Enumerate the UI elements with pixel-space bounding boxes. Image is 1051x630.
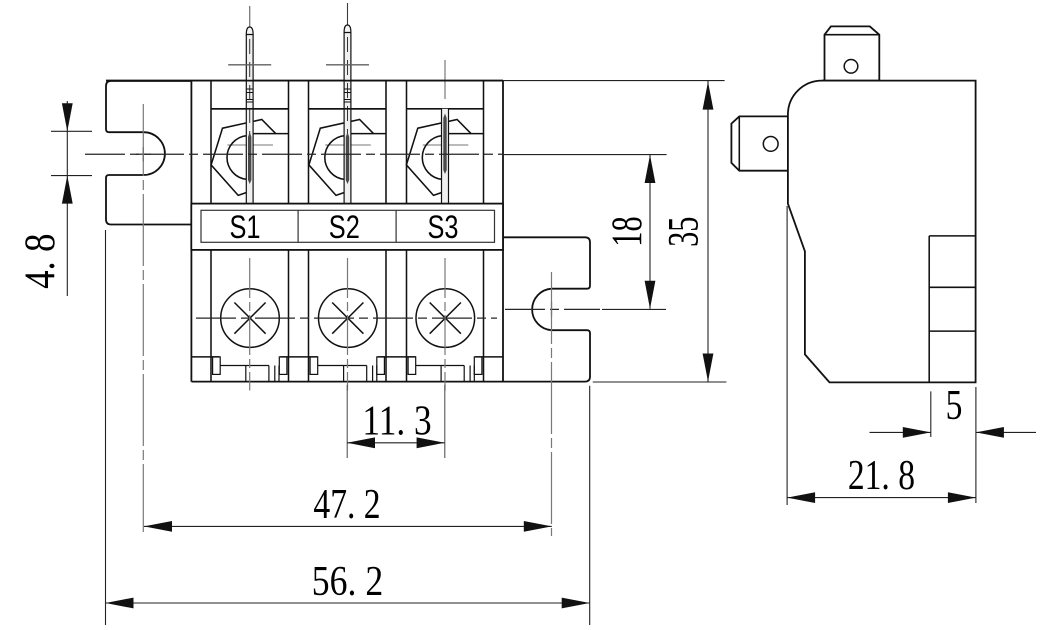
- terminal 3 screw hole arc: [422, 136, 442, 180]
- left tab hole: [763, 137, 778, 152]
- svg-text:56. 2: 56. 2: [312, 558, 383, 604]
- dimension 35 dim line and arrows: [707, 81, 709, 382]
- left view: body left edge: [190, 81, 192, 382]
- dimension 18 dim line and arrows: [649, 155, 651, 309]
- right mounting tab with slot: [503, 237, 590, 381]
- top tab hole: [844, 60, 858, 74]
- terminal 3 clamp nut polygon: [406, 120, 471, 196]
- terminal 1 screw hole arc: [227, 136, 247, 180]
- terminal 3 chamber top line: [407, 108, 484, 110]
- pin 2 cross tick: [326, 64, 369, 66]
- terminal 2 clamp nut polygon: [309, 120, 374, 196]
- screw head cross 3: [430, 303, 461, 334]
- pin 1 centerline above: [249, 6, 251, 28]
- side view left quick-connect tab: [731, 116, 788, 170]
- svg-text:4. 8: 4. 8: [15, 233, 63, 288]
- pin 1 body: [246, 34, 253, 204]
- horizontal centerline upper (through slots/nuts): [85, 153, 503, 155]
- svg-text:S3: S3: [428, 210, 459, 246]
- terminal 2 chamber top line: [309, 108, 387, 110]
- left slot center cross: [136, 153, 151, 155]
- foot tabs section 2: [310, 357, 318, 375]
- dimension 21.8 extension line left: [786, 206, 788, 505]
- dimension 11.3 extension lines: [346, 385, 348, 458]
- vertical centerlines screws: [249, 258, 251, 391]
- dimension 5 dim line and arrows (outside): [870, 431, 931, 433]
- dimension 35 extension lines: [503, 80, 725, 82]
- pin 2 inner dashed centerline: [347, 37, 349, 155]
- dimension 5 extension lines: [930, 391, 932, 437]
- svg-text:35: 35: [660, 216, 708, 246]
- svg-text:21. 8: 21. 8: [848, 453, 915, 499]
- svg-text:11. 3: 11. 3: [362, 398, 431, 445]
- foot tabs section 1: [213, 357, 221, 375]
- horizontal centerline right tab slot: [505, 308, 600, 310]
- left view: body bottom edge: [191, 381, 585, 383]
- dimension 11.3 dim line and arrows: [347, 442, 445, 444]
- body top edge overlay across pins: [106, 80, 503, 82]
- pin 1 thread bands: [246, 88, 253, 90]
- pin 1 dark core: [248, 137, 251, 184]
- svg-text:47. 2: 47. 2: [313, 482, 380, 528]
- svg-text:S2: S2: [329, 210, 360, 246]
- pin 2 centerline above: [347, 3, 349, 26]
- label strip outer box: [191, 204, 503, 250]
- side view top edge under tab: [822, 80, 879, 82]
- pin 3 (short, inside body): [444, 60, 446, 99]
- screw head circle 3: [416, 289, 475, 348]
- terminal 1 clamp nut polygon: [211, 120, 276, 196]
- chamber line overlay section 2: [309, 108, 387, 110]
- label divider 1: [297, 210, 299, 242]
- dimension 47.2 dim line and arrows: [144, 525, 552, 527]
- screw head cross 1: [234, 303, 265, 334]
- svg-text:18: 18: [604, 216, 652, 246]
- pin 2 body: [344, 32, 351, 204]
- pin 2 thread bands: [344, 88, 351, 90]
- terminal 3 nut ledge line: [448, 133, 483, 135]
- bottom section inner walls: [210, 250, 212, 382]
- terminal 1 washer line: [227, 144, 273, 146]
- dimension 4.8 extension lines: [51, 130, 92, 132]
- vertical centerline right tab: [551, 272, 553, 536]
- dimension 56.2 dim line and arrows: [106, 602, 590, 604]
- right slot center cross: [551, 302, 553, 317]
- screw head cross 2: [332, 303, 363, 334]
- foot tabs section 3: [408, 357, 416, 375]
- screw head circle 2: [319, 289, 378, 348]
- pin 1 inner dashed centerline: [249, 39, 251, 155]
- left view: body right edge: [502, 81, 504, 382]
- dimension 18 extension lines: [503, 154, 667, 156]
- foot band top line segments: [191, 356, 219, 358]
- svg-text:S1: S1: [230, 210, 261, 246]
- terminal 2 screw hole arc: [325, 136, 345, 180]
- terminal 1 chamber top line: [211, 108, 289, 110]
- pin 2 dark core: [346, 137, 349, 184]
- left mounting tab with slot: [106, 81, 191, 225]
- dimension 4.8 dim line and arrows: [66, 101, 68, 296]
- chamber line overlay section 1: [211, 108, 289, 110]
- top section inner walls: [210, 81, 212, 204]
- terminal 2 washer line: [325, 144, 371, 146]
- dimension 56.2 extension lines: [105, 230, 107, 625]
- terminal 3 washer line: [423, 144, 469, 146]
- horizontal centerline screws: [196, 317, 497, 319]
- label strip inner box: [201, 210, 495, 242]
- terminal 2 nut ledge line: [351, 133, 386, 135]
- svg-text:5: 5: [946, 383, 963, 429]
- label divider 2: [395, 210, 397, 242]
- left view: body top edge: [106, 80, 503, 82]
- side view body outline: [788, 81, 976, 383]
- dimension 21.8 dim line and arrows: [787, 497, 976, 499]
- side view top quick-connect tab: [825, 26, 880, 80]
- terminal 1 nut ledge line: [253, 133, 289, 135]
- pin 1 cross tick: [228, 64, 271, 66]
- side view step ledges: [928, 236, 930, 383]
- vertical centerline left tab: [142, 104, 144, 532]
- screw head circle 1: [221, 289, 280, 348]
